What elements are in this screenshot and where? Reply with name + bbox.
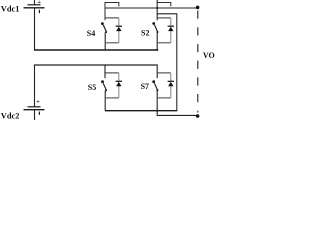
- svg-text:S7: S7: [141, 82, 149, 91]
- wire S4 cell top connector: [105, 17, 119, 19]
- diode D4 (antiparallel with S4): [116, 18, 122, 43]
- wire S4 top stub: [105, 3, 119, 21]
- wire S5 leg from bridge2 top rail: [104, 65, 106, 78]
- wire S2 cell bottom connector: [157, 42, 171, 44]
- switch S5: [101, 80, 107, 110]
- wire bridge1 top rail: [105, 7, 197, 9]
- svg-text:Vdc2: Vdc2: [1, 112, 20, 120]
- svg-text:+: +: [37, 0, 41, 6]
- wire tap from S2 leg to right leg: [157, 13, 177, 15]
- wire S4 cell bottom connector: [105, 42, 119, 44]
- node junction S7 leg with bridge2 bottom rail: [156, 110, 158, 112]
- svg-text:S5: S5: [88, 83, 96, 92]
- svg-text:S4: S4: [87, 29, 95, 38]
- wire dashed output line: [197, 11, 199, 113]
- wire S7 cell bottom connector: [157, 97, 171, 99]
- battery Vdc2: [24, 99, 45, 120]
- wire bridge1 bottom rail: [34, 49, 158, 51]
- svg-text:+: +: [36, 99, 40, 106]
- svg-text:Vdc1: Vdc1: [1, 5, 20, 14]
- node junction S2 leg with top rail: [156, 7, 158, 9]
- wire bridge2 left leg down to battery Vdc2: [34, 65, 36, 107]
- wire bridge2 bottom rail: [105, 110, 177, 112]
- svg-text:VO: VO: [203, 51, 215, 60]
- wire S5 cell bottom connector: [105, 97, 119, 99]
- wire S2 cell top connector: [157, 17, 171, 19]
- svg-text:S2: S2: [141, 29, 149, 38]
- diode D5 (antiparallel with S5): [116, 73, 122, 98]
- node output top terminal: [196, 6, 200, 10]
- switch S7: [152, 80, 158, 110]
- diode D2 (antiparallel with S2): [168, 18, 174, 43]
- switch S4: [101, 22, 107, 50]
- wire output stub to bottom terminal: [157, 111, 197, 116]
- wire right leg vertical: [176, 14, 178, 111]
- wire S7 leg from bridge2 top rail: [156, 65, 158, 78]
- node output bottom terminal: [196, 114, 200, 118]
- wire battery Vdc1 negative down to bridge1 bottom rail: [34, 8, 36, 50]
- wire bridge2 top rail: [34, 64, 158, 66]
- wire S7 cell top connector: [157, 72, 171, 74]
- battery Vdc1: [24, 0, 45, 13]
- switch S2: [152, 22, 158, 50]
- wire S2 leg from image top: [156, 0, 158, 20]
- wire S2 top stub: [157, 3, 171, 7]
- wire S5 cell top connector: [105, 72, 119, 74]
- node junction S2 leg with bridge1 bottom rail: [156, 49, 158, 51]
- diode D7 (antiparallel with S7): [168, 73, 174, 98]
